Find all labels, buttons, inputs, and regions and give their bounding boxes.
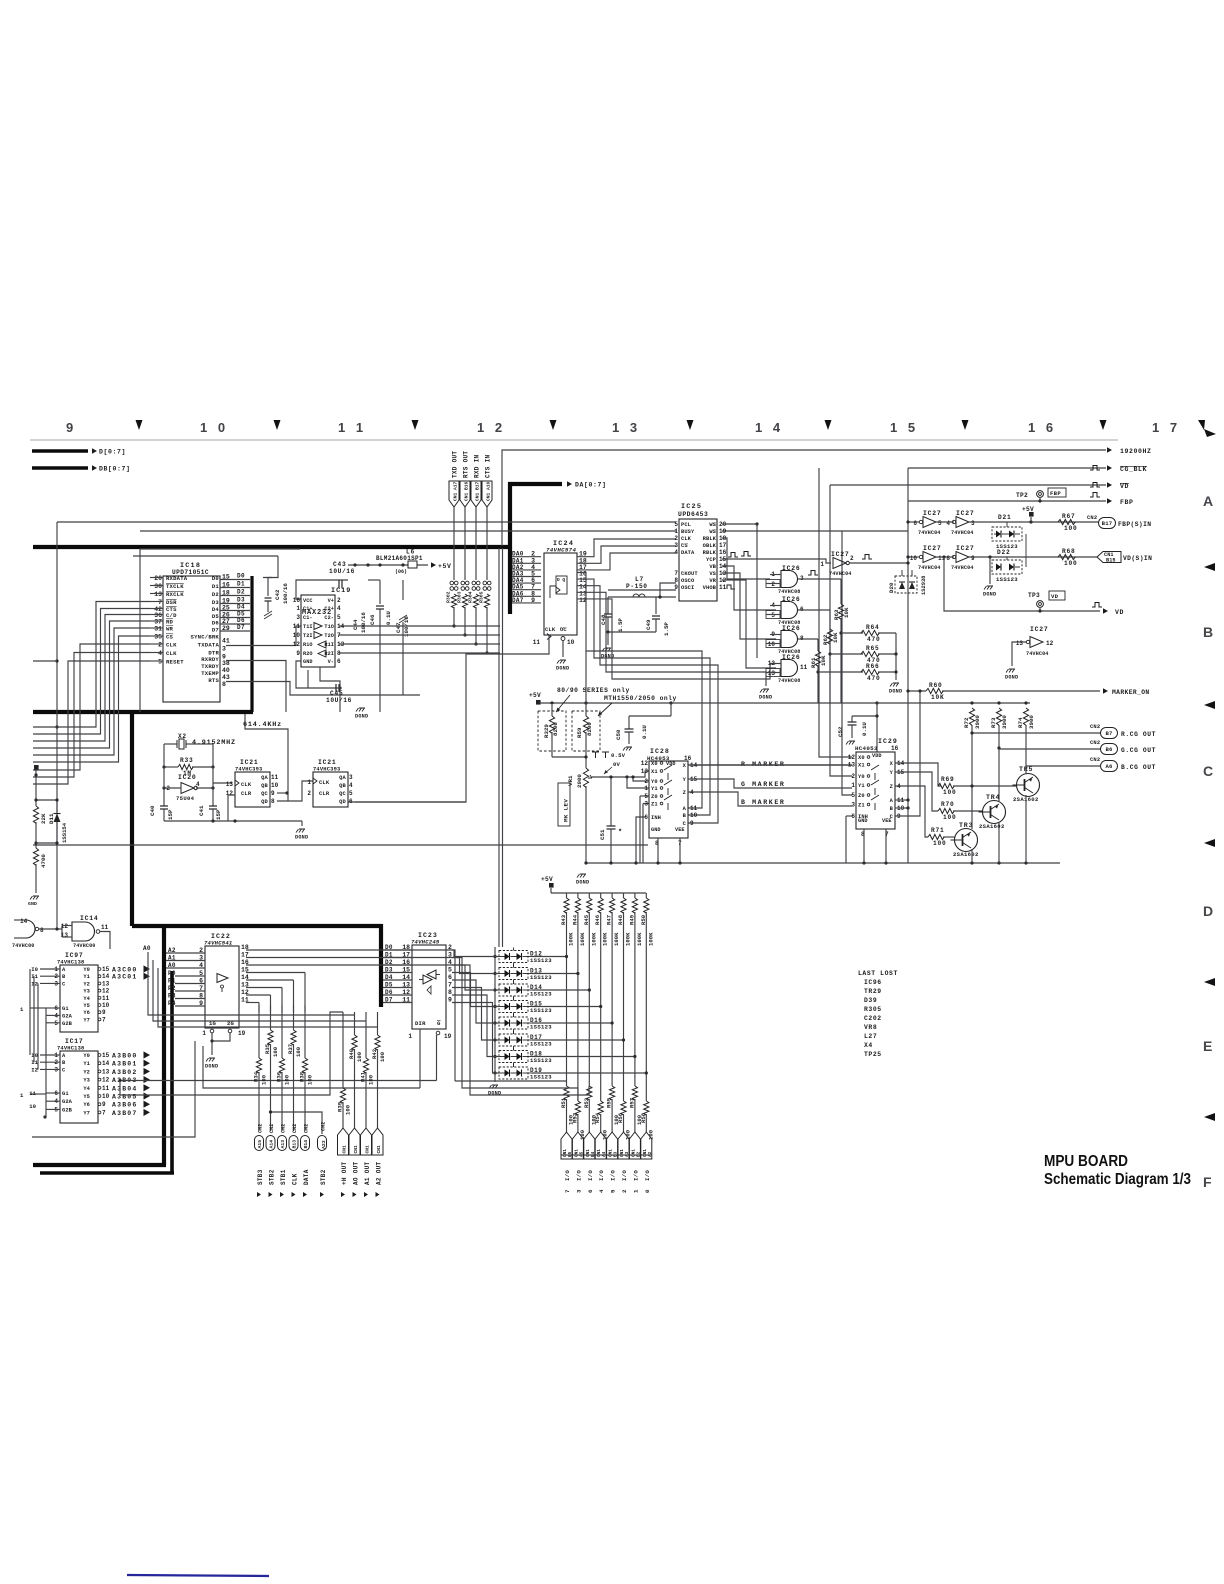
svg-text:IC97: IC97 [65,952,84,959]
svg-text:R2O: R2O [303,651,313,657]
wire R MARKER [688,764,852,766]
connector CN1 A2 OUT [372,1128,383,1155]
svg-text:RXDATA: RXDATA [166,575,188,582]
svg-text:1: 1 [408,1033,412,1040]
svg-text:RBLK: RBLK [703,550,717,556]
svg-text:R68: R68 [1062,548,1076,555]
svg-text:I/O: I/O [575,1170,582,1181]
resistor R302 [451,594,456,608]
thick bus bar under IC18 [33,710,253,714]
svg-text:1: 1 [644,785,648,792]
svg-text:0.5V: 0.5V [611,752,626,759]
svg-text:CN1 A16: CN1 A16 [485,481,491,501]
svg-text:12: 12 [293,641,301,648]
svg-text:1SS123: 1SS123 [530,1007,552,1014]
svg-text:12: 12 [1046,640,1054,647]
svg-text:R302: R302 [446,591,452,603]
GND left column [30,896,39,900]
svg-text:3900: 3900 [1001,715,1008,729]
svg-text:X0: X0 [651,761,658,767]
wire CTS IN down [486,507,488,580]
svg-text:CN2: CN2 [1090,757,1100,763]
diode pair D12 1SS123 [499,951,528,963]
IC22 internal buffer [217,974,228,983]
svg-text:1 2: 1 2 [477,420,506,435]
svg-text:2: 2 [337,597,341,604]
svg-text:G MARKER: G MARKER [741,781,785,788]
svg-text:P0: P0 [168,970,176,977]
svg-text:T1I: T1I [303,624,313,630]
thick D-bus vertical bar right of IC18 [250,576,253,712]
svg-text:CKOUT: CKOUT [681,571,698,577]
DGND diode column [494,1073,496,1082]
svg-text:R74: R74 [1017,717,1024,728]
svg-text:CG_BLK: CG_BLK [1120,466,1147,473]
svg-text:I/O: I/O [632,1170,639,1181]
svg-text:5: 5 [938,520,942,527]
svg-text:DGND: DGND [205,1064,218,1070]
svg-text:IC27: IC27 [1030,626,1049,633]
svg-text:G2A: G2A [62,1013,73,1019]
wire R64-66 common to DGND [895,633,897,680]
svg-text:OSCI: OSCI [681,585,694,591]
svg-text:74VHC00: 74VHC00 [73,943,96,949]
resistor R52 100 [575,1101,580,1115]
wire WS20 [722,523,757,525]
svg-text:100K: 100K [568,932,575,946]
svg-text:R64: R64 [866,624,880,631]
svg-text:10K: 10K [832,632,839,643]
svg-text:R33: R33 [180,757,194,764]
svg-text:D0: D0 [237,573,245,580]
wire oscillator right rail [212,744,214,806]
wire bundle lower horizontals [194,1041,196,1081]
svg-text:I/O: I/O [610,1170,617,1181]
svg-text:IC27: IC27 [956,510,975,517]
svg-text:Y1: Y1 [83,1061,90,1067]
svg-text:X1: X1 [651,769,658,775]
svg-text:R65: R65 [866,645,880,652]
svg-text:100: 100 [379,1051,386,1062]
svg-text:C44: C44 [352,619,359,630]
wires diode rows to pullup columns [532,956,567,958]
svg-text:QB: QB [261,783,268,789]
svg-text:DGND: DGND [556,666,569,672]
svg-text:A3C01: A3C01 [112,974,138,981]
svg-text:9: 9 [102,1009,106,1016]
svg-text:19: 19 [444,1033,452,1040]
svg-text:0.1U: 0.1U [641,725,648,739]
svg-text:DGND: DGND [488,1091,501,1097]
wires IC22 to STB resistors [246,973,305,1006]
bus DB[0:7] arrow [32,466,88,469]
svg-text:A3B02: A3B02 [112,1069,138,1076]
svg-text:D[0:7]: D[0:7] [99,449,126,456]
wire IC25 VB/VS rows to gates [722,566,776,610]
svg-text:2: 2 [850,555,854,562]
svg-text:FBP: FBP [1120,499,1134,506]
svg-text:100: 100 [368,1074,375,1085]
thick bus horizontal inner [40,1171,174,1175]
svg-text:+H OUT: +H OUT [341,1161,348,1185]
svg-text:11: 11 [271,774,279,781]
svg-text:P3: P3 [168,993,176,1000]
svg-text:DGND: DGND [983,592,996,598]
wire IC29 Y out to R70 [895,772,938,811]
svg-text:STB2: STB2 [268,1169,275,1185]
svg-text:D11: D11 [48,813,55,824]
svg-text:B.CG OUT: B.CG OUT [1121,764,1156,771]
wire OSCO row to L7 [660,583,676,597]
DGND below D22 [989,557,991,584]
svg-text:R67: R67 [1062,513,1076,520]
CN1 pentagon bottoms join [561,1154,652,1156]
svg-text:VDD: VDD [872,753,882,759]
svg-text:2: 2 [851,773,855,780]
svg-text:7: 7 [674,570,678,577]
resistor R55 100 [609,1086,614,1100]
svg-text:Z: Z [890,784,893,790]
svg-text:R60: R60 [929,682,943,689]
svg-text:DB[0:7]: DB[0:7] [99,466,131,473]
svg-text:I1: I1 [31,973,38,980]
svg-text:V-: V- [328,659,334,665]
svg-text:3900: 3900 [974,715,981,729]
svg-text:D7: D7 [237,624,245,631]
svg-text:3900: 3900 [1028,715,1035,729]
svg-text:C47: C47 [395,622,402,633]
svg-text:FBP(S)IN: FBP(S)IN [1118,521,1151,528]
svg-text:5: 5 [771,612,775,619]
svg-text:20: 20 [154,575,162,582]
svg-text:B MARKER: B MARKER [741,799,785,806]
svg-text:11: 11 [533,639,541,646]
svg-text:13: 13 [1016,640,1024,647]
svg-text:A: A [1203,493,1213,509]
svg-text:16: 16 [293,597,301,604]
svg-text:100: 100 [345,1104,352,1115]
svg-text:I/O: I/O [621,1170,628,1181]
svg-text:C: C [1203,763,1213,779]
svg-text:Y0: Y0 [651,779,658,785]
DGND under IC22 [206,1058,215,1062]
svg-text:R71: R71 [931,827,945,834]
svg-text:IC20: IC20 [178,774,197,781]
wire gate2 out [798,609,830,611]
svg-text:VHOB: VHOB [703,585,717,591]
DGND under IC27 13-12 [1006,669,1015,673]
svg-text:1.5P: 1.5P [617,618,624,632]
wire MAX232 V- to C45 [320,667,340,688]
svg-text:TP2: TP2 [1016,492,1028,499]
svg-text:5: 5 [674,521,678,528]
svg-text:9: 9 [271,790,275,797]
IC29 INH wire [846,815,852,817]
svg-text:9: 9 [296,650,300,657]
svg-text:4.9152MHZ: 4.9152MHZ [192,739,236,747]
svg-text:R61: R61 [810,657,817,668]
svg-text:HC4053: HC4053 [855,745,878,752]
svg-text:5: 5 [349,790,353,797]
svg-text:12: 12 [226,790,234,797]
svg-text:10: 10 [768,641,776,648]
svg-text:IC17: IC17 [65,1038,84,1045]
svg-text:CLK: CLK [291,1173,298,1185]
svg-text:VR: VR [709,578,716,584]
svg-text:A23: A23 [321,1140,327,1149]
IC25 VHOB waveform glyph [727,585,735,589]
resistor R38 100 [304,1005,306,1058]
svg-text:5: 5 [448,967,452,974]
svg-text:QA: QA [261,775,268,781]
svg-text:14: 14 [102,1060,110,1067]
IC24 internal FF symbol [556,576,567,594]
wire FBP rail [908,500,1106,502]
svg-text:A3B06: A3B06 [112,1102,138,1109]
svg-text:74VHC00: 74VHC00 [12,943,35,949]
wire vertical CG_BLK feed to IC29 X0 [819,468,852,757]
IC18 RXRDY wire [226,661,286,713]
svg-text:9: 9 [102,1101,106,1108]
MK LEV boxed label [558,783,570,826]
svg-text:100: 100 [295,1046,302,1057]
svg-text:3: 3 [575,1189,582,1193]
svg-text:TXRDY: TXRDY [201,663,219,670]
svg-text:DGND: DGND [759,695,772,701]
wire C43 top rail [296,565,348,580]
svg-text:DSR: DSR [166,599,177,606]
svg-text:Y4: Y4 [83,1086,90,1092]
svg-text:A15: A15 [257,1140,263,1149]
svg-text:TR3: TR3 [959,822,973,829]
IC28 switch glyphs [664,765,672,770]
svg-text:74VHC08: 74VHC08 [778,678,801,684]
wire YCP row to IC27 [722,559,831,563]
svg-text:IC21: IC21 [318,759,337,766]
svg-text:RTS: RTS [208,677,219,684]
svg-text:4700: 4700 [40,854,47,868]
svg-text:12: 12 [102,1077,110,1084]
svg-text:6: 6 [587,1189,594,1193]
IC19 internal buffers [314,623,322,630]
diode pair D18 1SS123 [499,1051,528,1063]
svg-text:10K: 10K [820,655,827,666]
svg-text:7: 7 [158,599,162,606]
wire from gate4 to VD [944,557,1100,611]
svg-text:C46: C46 [369,614,376,625]
resistor R56 100 [621,1101,626,1115]
svg-text:VS: VS [709,571,716,577]
svg-text:A3B04: A3B04 [112,1085,138,1092]
wire stub at 661 [33,660,57,662]
svg-text:Z0: Z0 [651,794,658,800]
wire IC20 out to IC21 clk [213,782,232,784]
IC18 RTS wire [226,682,420,696]
svg-text:31: 31 [154,626,162,633]
svg-text:I/O: I/O [644,1170,651,1181]
svg-text:1SS123: 1SS123 [530,957,552,964]
svg-text:IC19: IC19 [331,587,351,595]
svg-text:10: 10 [910,555,918,562]
wire IC29 Z out to R71 [895,786,928,837]
svg-text:BUSY: BUSY [681,529,695,535]
svg-text:+5V: +5V [1022,506,1034,513]
svg-text:74VHC04: 74VHC04 [951,565,974,571]
svg-text:B7: B7 [1105,730,1112,737]
svg-text:G: G [437,1020,441,1027]
diode pair D13 1SS123 [499,968,528,980]
svg-text:D22: D22 [997,549,1011,556]
svg-text:+5V: +5V [438,563,452,570]
svg-text:0V: 0V [613,761,621,768]
resistor R43 100K [566,893,568,898]
svg-text:13: 13 [768,670,776,677]
svg-text:C202: C202 [864,1015,882,1022]
svg-text:4: 4 [158,650,162,657]
corner mark top right [1198,420,1205,430]
wire CTS IN to MAX232 row [486,607,488,653]
thick bus vertical inner P-bus [170,971,174,1173]
wire QC to 614 net [277,792,287,794]
diode pair D19 1SS123 [499,1067,528,1079]
svg-text:INH: INH [651,815,661,821]
svg-text:1 6: 1 6 [1028,420,1057,435]
svg-text:IC28: IC28 [650,748,670,755]
svg-text:1 5: 1 5 [890,420,919,435]
svg-text:9: 9 [690,820,694,827]
wire RTS OUT to MAX232 row [464,607,466,635]
svg-text:3: 3 [349,774,353,781]
svg-text:WS: WS [709,522,716,528]
svg-text:Z1: Z1 [858,803,865,809]
svg-text:16: 16 [891,745,899,752]
svg-text:1: 1 [632,1189,639,1193]
svg-text:VD: VD [1115,609,1124,616]
IC24 CLK net wire [348,635,549,802]
svg-text:IC96: IC96 [864,979,882,986]
svg-text:DGND: DGND [355,714,368,720]
resistor R51 100 [564,1086,569,1100]
wire 614.4KHz net [245,714,288,801]
svg-text:DATA: DATA [681,550,695,556]
svg-text:100K: 100K [602,932,609,946]
svg-text:IC27: IC27 [923,545,942,552]
svg-text:D39: D39 [864,997,877,1004]
svg-text:3: 3 [971,520,975,527]
wire TXD OUT down [453,507,455,580]
blue pen mark bottom left [127,1575,269,1576]
svg-text:1: 1 [851,782,855,789]
svg-text:Y0: Y0 [83,967,90,973]
svg-text:100: 100 [1064,525,1078,532]
svg-text:V+: V+ [328,598,334,604]
connector CN1 B5 I/O [561,1132,572,1159]
svg-text:D3: D3 [237,597,245,604]
svg-text:CLK: CLK [166,650,177,657]
wire BUSY long rail [140,530,676,532]
resistor R37 100 [293,1005,295,1030]
svg-text:12: 12 [641,760,649,767]
svg-text:RBLK: RBLK [703,536,717,542]
svg-text:T2O: T2O [324,633,334,639]
svg-text:T2I: T2I [303,633,313,639]
svg-text:100: 100 [284,1074,291,1085]
wires IC23 outputs staircase to diode rows [452,950,499,957]
svg-text:1: 1 [202,1030,206,1037]
svg-text:6: 6 [851,813,855,820]
svg-text:Y2: Y2 [83,1069,90,1075]
svg-text:10K: 10K [931,694,945,701]
connector CN1 B15 VD(S)IN [1097,552,1121,563]
svg-text:T1O: T1O [324,624,334,630]
DGND at rail [585,863,587,869]
svg-text:8: 8 [271,798,275,805]
svg-text:R69: R69 [941,776,955,783]
+5V square node left [34,765,39,770]
svg-text:74VHC08: 74VHC08 [778,589,801,595]
resistor R49 100K [634,893,636,898]
svg-text:IC29: IC29 [878,738,898,745]
resistor R35 100 [270,1005,272,1030]
svg-text:Y6: Y6 [83,1010,90,1016]
svg-text:CLK: CLK [545,627,556,633]
svg-text:C2+: C2+ [324,606,334,612]
DGND under IC26 [765,673,767,687]
svg-text:614.4KHz: 614.4KHz [243,721,282,729]
svg-text:TXDATA: TXDATA [198,642,220,649]
connector CN1 AO OUT [349,1128,360,1155]
svg-text:100: 100 [261,1074,268,1085]
svg-text:SYNC/BRK: SYNC/BRK [191,634,220,641]
svg-text:CN1 A17: CN1 A17 [452,481,458,501]
connector CN1 A2 I/O [641,1132,652,1159]
svg-text:13: 13 [102,1068,110,1075]
svg-text:C1+: C1+ [303,606,313,612]
connector CN2 B7 R.CG OUT [972,732,1100,734]
svg-text:DIR: DIR [415,1020,426,1027]
resistor R47 100K [611,893,613,898]
svg-text:D6: D6 [212,620,220,627]
svg-text:D4: D4 [212,606,220,613]
thick horizontal data bus bar [33,545,508,549]
wire A0 A1 A2 verticals to OUT connectors [148,952,355,1015]
svg-text:X4: X4 [864,1042,873,1049]
svg-text:100: 100 [943,789,957,796]
wires IC23 bottom to left rails [120,1080,437,1082]
wire VD(s) rail [830,484,1106,486]
svg-text:DA[0:7]: DA[0:7] [575,482,607,489]
IC24 to IC25 control wires [577,539,676,557]
svg-text:Y2: Y2 [83,981,90,987]
svg-text:5: 5 [644,793,648,800]
bus DA[0:7] thick L with arrow [510,484,562,614]
svg-text:CN2: CN2 [292,1124,298,1133]
svg-text:470: 470 [867,636,881,643]
svg-text:40: 40 [222,667,230,674]
svg-text:WS: WS [709,529,716,535]
thick bus vertical left [130,712,134,926]
svg-text:11: 11 [102,995,110,1002]
svg-text:C2-: C2- [324,615,334,621]
connector CN1 B3 I/O [607,1132,618,1159]
svg-text:Y0: Y0 [83,1053,90,1059]
IC29 pins 8/7 to rail [863,829,865,863]
connector CN1 B4 I/O [584,1132,595,1159]
svg-text:B15: B15 [1106,558,1116,564]
svg-text:IC27: IC27 [831,551,850,558]
svg-text:G2B: G2B [62,1107,73,1113]
svg-text:I0: I0 [31,966,38,973]
